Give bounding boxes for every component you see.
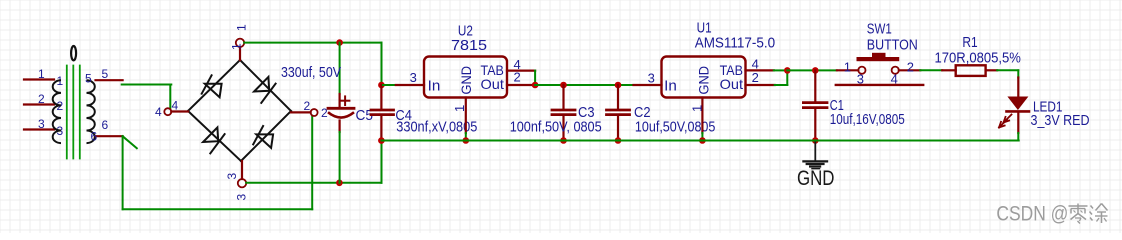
svg-text:2: 2 xyxy=(907,59,914,74)
svg-text:6: 6 xyxy=(91,130,98,144)
svg-text:5: 5 xyxy=(102,67,109,81)
svg-text:3: 3 xyxy=(857,72,864,87)
svg-text:3: 3 xyxy=(410,70,417,85)
svg-text:3_3V RED: 3_3V RED xyxy=(1031,112,1090,129)
svg-text:330uf, 50V: 330uf, 50V xyxy=(281,64,341,81)
svg-text:10uf,16V,0805: 10uf,16V,0805 xyxy=(830,111,905,128)
svg-text:100nf,50V, 0805: 100nf,50V, 0805 xyxy=(510,119,602,136)
svg-text:AMS1117-5.0: AMS1117-5.0 xyxy=(695,34,776,51)
svg-text:3: 3 xyxy=(648,71,655,86)
svg-text:1: 1 xyxy=(230,43,244,50)
svg-text:2: 2 xyxy=(752,70,759,85)
svg-text:In: In xyxy=(428,78,441,95)
svg-text:6: 6 xyxy=(102,118,109,132)
svg-text:Out: Out xyxy=(481,76,505,92)
svg-text:In: In xyxy=(664,78,677,95)
svg-text:4: 4 xyxy=(172,99,179,113)
svg-text:CSDN @: CSDN @ xyxy=(996,203,1068,226)
svg-text:7815: 7815 xyxy=(451,37,487,54)
svg-text:GND: GND xyxy=(797,167,835,190)
svg-text:3: 3 xyxy=(235,194,249,201)
svg-text:BUTTON: BUTTON xyxy=(867,36,918,53)
svg-text:2: 2 xyxy=(38,92,45,106)
svg-text:GND: GND xyxy=(458,66,474,95)
svg-text:2: 2 xyxy=(514,69,521,84)
svg-text:5: 5 xyxy=(85,72,92,86)
svg-text:1: 1 xyxy=(235,24,249,31)
svg-text:4: 4 xyxy=(155,105,162,119)
svg-text:GND: GND xyxy=(696,66,712,95)
svg-text:Out: Out xyxy=(720,76,744,92)
svg-text:1: 1 xyxy=(38,67,45,81)
svg-text:1: 1 xyxy=(452,105,467,112)
svg-text:1: 1 xyxy=(690,105,705,112)
svg-text:3: 3 xyxy=(225,173,239,180)
svg-text:SW1: SW1 xyxy=(867,20,892,37)
svg-text:1: 1 xyxy=(844,59,851,74)
svg-text:4: 4 xyxy=(891,72,898,87)
svg-text:2: 2 xyxy=(304,99,311,113)
svg-text:170R,0805,5%: 170R,0805,5% xyxy=(935,50,1021,67)
svg-text:3: 3 xyxy=(38,117,45,131)
